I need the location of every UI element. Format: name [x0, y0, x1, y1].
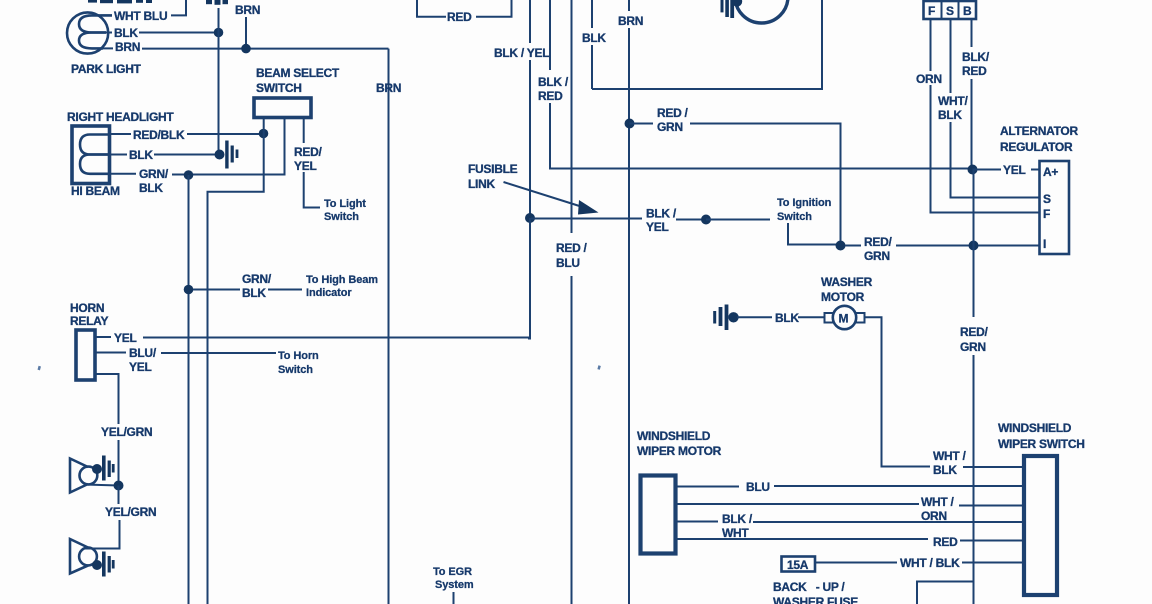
wire beam switch pin3 (RED/YEL): [304, 118, 320, 208]
svg-text:SWITCH: SWITCH: [256, 81, 302, 95]
svg-text:GRN/: GRN/: [242, 272, 272, 286]
node J12 on RED/GRN vertical: [969, 241, 979, 251]
node J3 RED/BLK to beam switch pin1: [259, 129, 269, 139]
wire RED/BLU vertical lower segment: [571, 276, 573, 604]
svg-text:System: System: [435, 579, 474, 591]
label WHT / BLK (washer wire): [933, 449, 967, 477]
svg-text:To Horn: To Horn: [278, 350, 319, 362]
wire RED/BLU vertical top segment: [571, 0, 573, 233]
label FUSIBLE LINK: [468, 162, 518, 191]
wire node to horn H2: [93, 486, 120, 549]
wire EGR stub: [453, 592, 455, 604]
wire GRN/BLK to high beam indicator: [193, 289, 302, 291]
wire RED/GRN vertical upper from J13: [973, 170, 975, 318]
svg-text:YEL: YEL: [294, 159, 317, 173]
svg-text:MOTOR: MOTOR: [821, 290, 865, 304]
label BLK / YEL (middle): [646, 207, 677, 235]
label RED / GRN (upper): [657, 106, 689, 134]
svg-text:RED/: RED/: [294, 145, 322, 159]
label To EGR System: [433, 566, 474, 591]
label WINDSHIELD WIPER SWITCH: [998, 421, 1085, 451]
svg-text:Indicator: Indicator: [306, 287, 352, 299]
wire WHT BLU from park light: [101, 0, 186, 15]
label BLK / WHT: [722, 512, 753, 540]
svg-text:BLK: BLK: [242, 286, 266, 300]
wire YEL label gap to A+: [973, 169, 1040, 171]
wire BRN bus second (x=629) top segment: [628, 0, 630, 11]
lamp L2 right headlight: [72, 126, 110, 184]
wire BLK/YEL vertical top segment: [529, 0, 531, 43]
svg-text:I: I: [1043, 237, 1046, 251]
svg-text:To EGR: To EGR: [433, 566, 472, 578]
wire horn H2 top connection: [84, 548, 93, 550]
svg-text:RELAY: RELAY: [70, 314, 108, 328]
wire RED/GRN vertical lower: [973, 355, 975, 604]
svg-text:To Ignition: To Ignition: [777, 197, 832, 209]
wire RED/GRN to regulator I pin: [845, 245, 1040, 247]
wire BLK/YEL continue to ignition text: [706, 219, 770, 221]
svg-text:RED: RED: [933, 535, 958, 549]
svg-text:BLK: BLK: [582, 31, 606, 45]
svg-text:RED: RED: [962, 64, 987, 78]
label RED/ GRN (at I wire): [864, 235, 892, 263]
svg-text:RED/: RED/: [864, 235, 892, 249]
label BACK - UP / WASHER FUSE: [773, 580, 858, 604]
wire YEL from horn relay: [95, 336, 531, 339]
svg-text:HI BEAM: HI BEAM: [71, 184, 120, 198]
wire S pin down: [951, 19, 1040, 198]
wire wiper 3 BLK/WHT: [676, 521, 1025, 524]
wire bus down from J5: [188, 175, 190, 604]
svg-text:BLU: BLU: [746, 480, 770, 494]
label RED/YEL: [294, 145, 322, 173]
wire washer motor to wiper switch: [865, 317, 931, 466]
ground G5 (washer motor): [713, 305, 739, 331]
svg-text:REGULATOR: REGULATOR: [1000, 140, 1073, 154]
wire BRN bus vertical: [388, 49, 390, 604]
motor M3 windshield wiper motor box: [641, 476, 676, 554]
cut-off text sliver top-left (DIRECTION LIGHT): [88, 0, 152, 3]
wire washer to switch pin1: [963, 466, 1024, 468]
wire BLK/RED down then right to regulator A+: [550, 103, 971, 169]
svg-text:GRN/: GRN/: [139, 167, 169, 181]
wire BLU/YEL from horn relay: [95, 352, 276, 355]
connector P1 F S B: [924, 1, 977, 19]
label GRN/BLK (headlight): [139, 167, 169, 195]
label WHT / ORN: [921, 495, 955, 523]
svg-text:M: M: [839, 312, 849, 326]
wire beam switch pin1 down and jog left: [208, 118, 264, 604]
svg-text:WHT/: WHT/: [938, 94, 968, 108]
svg-text:BLK /: BLK /: [646, 207, 677, 221]
label ALTERNATOR REGULATOR: [1000, 124, 1078, 154]
label RED / BLU: [556, 241, 588, 270]
svg-text:F: F: [928, 4, 935, 18]
wire BLK/RED vertical top: [549, 0, 551, 70]
svg-text:BLU/: BLU/: [129, 346, 157, 360]
svg-text:B: B: [963, 4, 972, 18]
wire RED/BLK from headlight: [110, 133, 264, 135]
svg-text:GRN: GRN: [864, 249, 890, 263]
wire fusible node down to horn YEL wire: [528, 218, 530, 339]
svg-text:S: S: [1043, 192, 1051, 206]
wire vertical bus from top through J1 to ground: [218, 8, 220, 155]
svg-text:BEAM SELECT: BEAM SELECT: [256, 66, 340, 80]
label GRN/BLK (indicator): [242, 272, 272, 300]
node J8 fusible link node: [525, 213, 535, 223]
switch S2 windshield wiper switch: [1024, 456, 1057, 595]
svg-text:Switch: Switch: [324, 211, 359, 223]
svg-text:WINDSHIELD: WINDSHIELD: [637, 429, 711, 443]
lamp L1 park light bulb: [67, 12, 112, 53]
svg-text:ALTERNATOR: ALTERNATOR: [1000, 124, 1078, 138]
wire horn H1 to node: [84, 485, 119, 486]
box ignition unit left edge with BLK label: [591, 0, 593, 89]
wire BLK/YEL vertical to fusible node: [529, 60, 531, 218]
svg-text:BLK / YEL: BLK / YEL: [494, 46, 549, 60]
label To Ignition Switch: [777, 197, 832, 223]
wire RED/GRN right to ignition switch column: [630, 124, 841, 246]
svg-text:F: F: [1043, 207, 1050, 221]
svg-text:FUSIBLE: FUSIBLE: [468, 162, 518, 176]
label To Horn Switch: [278, 350, 319, 376]
svg-text:BLK/: BLK/: [962, 50, 990, 64]
svg-text:YEL: YEL: [1003, 163, 1026, 177]
svg-text:BACK - UP /: BACK - UP /: [773, 580, 845, 594]
wire BLK/YEL from fusible node rightward: [531, 219, 703, 220]
scan speck middle: [597, 365, 600, 370]
svg-text:YEL/GRN: YEL/GRN: [101, 425, 152, 439]
wire B pin down: [971, 19, 973, 170]
ground G3 (horn H2): [102, 552, 115, 577]
regulator U1 alternator regulator box: [1040, 161, 1070, 254]
svg-text:BLK /: BLK /: [722, 512, 753, 526]
svg-text:HORN: HORN: [70, 301, 104, 315]
ground G4 bars (ignition unit): [721, 0, 735, 18]
svg-text:PARK LIGHT: PARK LIGHT: [71, 62, 142, 76]
svg-text:BLK: BLK: [938, 108, 962, 122]
switch S1 beam select switch: [254, 98, 311, 118]
svg-text:RED /: RED /: [657, 106, 689, 120]
node J13 YEL junction: [968, 165, 978, 175]
wire BRN bus second lower: [628, 28, 630, 604]
svg-text:BLK: BLK: [129, 148, 153, 162]
wire GRN/BLK from headlight: [110, 118, 285, 175]
svg-text:S: S: [946, 4, 954, 18]
wire BRN from park light: [103, 47, 389, 49]
wire fuse to switch WHT/BLK: [815, 562, 1024, 564]
svg-text:WHT /: WHT /: [933, 449, 967, 463]
svg-text:BLU: BLU: [556, 256, 580, 270]
label WINDSHIELD WIPER MOTOR: [637, 429, 722, 458]
label WASHER MOTOR: [821, 275, 873, 304]
svg-text:WASHER FUSE: WASHER FUSE: [773, 595, 858, 604]
label To High Beam Indicator: [306, 274, 378, 299]
ground G2 (horn H1): [102, 456, 115, 481]
node J6 indicator junction: [184, 285, 194, 295]
svg-text:WHT / BLK: WHT / BLK: [900, 556, 960, 570]
wire relay to horns YEL/GRN: [95, 374, 119, 486]
node J10 on BLK/YEL wire: [701, 215, 711, 225]
svg-text:BRN: BRN: [115, 40, 140, 54]
svg-text:RED: RED: [538, 89, 563, 103]
svg-text:WHT: WHT: [722, 526, 749, 540]
node J7 horn junction: [114, 481, 124, 491]
node J11 RED/GRN lower junction: [836, 241, 846, 251]
wire BRN stub below label: [245, 17, 247, 49]
svg-text:RED /: RED /: [556, 241, 588, 255]
svg-text:WHT BLU: WHT BLU: [114, 9, 167, 23]
svg-text:ORN: ORN: [916, 72, 942, 86]
svg-text:BLK: BLK: [933, 463, 957, 477]
svg-text:GRN: GRN: [657, 120, 683, 134]
wire RED component bracket top: [417, 0, 512, 17]
svg-text:BLK: BLK: [114, 26, 138, 40]
node J9 RED/GRN junction on BRN bus: [625, 119, 635, 129]
fusible link arrow: [504, 182, 599, 215]
wire bottom elbow to RED/GRN bus: [917, 582, 974, 604]
wire F pin down: [931, 19, 1040, 213]
svg-text:BRN: BRN: [618, 14, 643, 28]
svg-text:BRN: BRN: [235, 3, 260, 17]
svg-text:To Light: To Light: [324, 198, 366, 210]
svg-text:WIPER SWITCH: WIPER SWITCH: [998, 437, 1085, 451]
label RED/ GRN (vertical): [960, 325, 988, 354]
svg-text:WASHER: WASHER: [821, 275, 873, 289]
wire wiper 4 RED: [676, 539, 1025, 541]
node J5 GRN/BLK junction: [184, 170, 194, 180]
svg-text:ORN: ORN: [921, 509, 947, 523]
svg-text:WIPER MOTOR: WIPER MOTOR: [637, 444, 722, 458]
wire ignition switch elbow to node: [788, 223, 841, 245]
svg-text:BLK /: BLK /: [538, 75, 569, 89]
svg-text:WINDSHIELD: WINDSHIELD: [998, 421, 1072, 435]
svg-text:YEL: YEL: [114, 331, 137, 345]
label WHT/BLK (S wire): [938, 94, 968, 122]
svg-text:Switch: Switch: [278, 364, 313, 376]
svg-text:YEL: YEL: [646, 220, 669, 234]
svg-text:RED/: RED/: [960, 325, 988, 339]
label To Light Switch: [324, 198, 366, 223]
svg-text:RED: RED: [447, 10, 472, 24]
fuse F1 15A back-up/washer fuse: [782, 557, 816, 573]
wire wiper 2 WHT/ORN: [676, 504, 1025, 506]
wire BLK from park light: [106, 32, 219, 34]
node J1 on BLK wire: [214, 28, 224, 38]
motor M1 ignition unit (cut off at top): [732, 0, 788, 23]
svg-text:To High Beam: To High Beam: [306, 274, 378, 286]
wire BLU wiper: [676, 485, 1025, 488]
wire BLK from headlight to ground: [110, 154, 217, 156]
node J4 BLK ground dot: [215, 150, 225, 160]
svg-text:BRN: BRN: [376, 81, 401, 95]
svg-text:RIGHT HEADLIGHT: RIGHT HEADLIGHT: [67, 110, 174, 124]
wire BLK to washer motor: [737, 316, 825, 318]
svg-text:LINK: LINK: [468, 177, 495, 191]
box ignition unit bottom and right edge: [592, 0, 822, 89]
label BLK/RED (B wire): [962, 50, 990, 78]
svg-text:WHT /: WHT /: [921, 495, 955, 509]
label BLU/YEL: [129, 346, 157, 374]
label BLK / RED (top): [538, 75, 569, 103]
ground G1 (headlight BLK): [225, 141, 238, 169]
svg-text:YEL/GRN: YEL/GRN: [105, 505, 156, 519]
cut-off text sliver (BRN above wire): [206, 0, 228, 5]
svg-text:15A: 15A: [787, 558, 809, 572]
motor M2 washer motor: [825, 306, 865, 329]
svg-text:YEL: YEL: [129, 360, 152, 374]
svg-text:GRN: GRN: [960, 340, 986, 354]
svg-text:BLK: BLK: [139, 181, 163, 195]
label HORN RELAY: [70, 301, 108, 328]
horn H2: [70, 539, 102, 574]
label BEAM SELECT SWITCH: [256, 66, 340, 95]
scan speck left: [38, 366, 41, 371]
node J2 on BRN wire: [241, 44, 251, 54]
svg-text:Switch: Switch: [777, 211, 812, 223]
svg-text:A+: A+: [1043, 165, 1058, 179]
svg-text:RED/BLK: RED/BLK: [133, 128, 185, 142]
relay K1 horn relay: [76, 330, 95, 380]
svg-text:BLK: BLK: [775, 311, 799, 325]
horn H1: [70, 459, 102, 493]
